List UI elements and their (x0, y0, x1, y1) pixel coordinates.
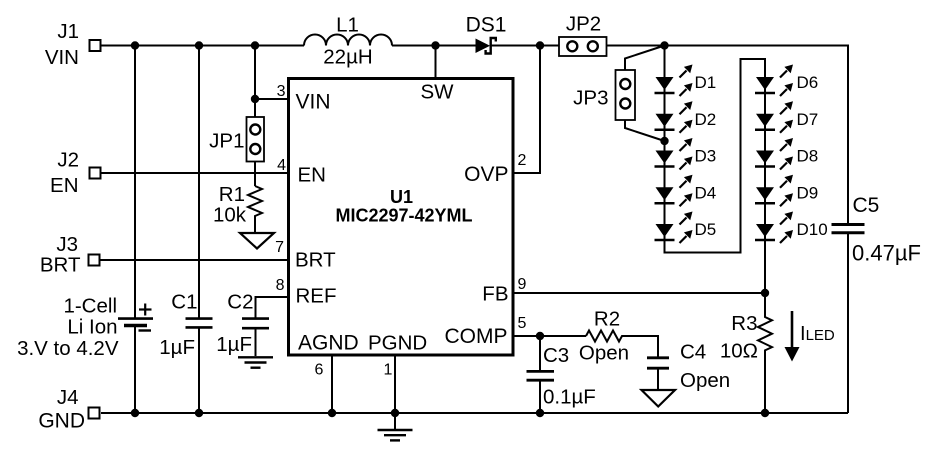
svg-text:D8: D8 (797, 147, 819, 166)
svg-text:D7: D7 (797, 110, 819, 129)
svg-text:22µH: 22µH (323, 46, 372, 69)
svg-text:0.1µF: 0.1µF (543, 386, 596, 409)
svg-text:AGND: AGND (298, 332, 359, 355)
svg-text:VIN: VIN (296, 91, 331, 114)
svg-text:U1: U1 (390, 187, 413, 207)
svg-text:R3: R3 (731, 312, 757, 335)
svg-text:REF: REF (296, 285, 337, 308)
svg-text:10k: 10k (213, 204, 247, 227)
svg-text:Li Ion: Li Ion (67, 316, 117, 339)
svg-text:C1: C1 (171, 291, 197, 314)
svg-text:4: 4 (277, 157, 286, 174)
svg-text:C5: C5 (853, 194, 880, 217)
svg-text:COMP: COMP (445, 325, 508, 348)
svg-text:J1: J1 (57, 20, 79, 43)
svg-text:C4: C4 (680, 341, 706, 364)
svg-text:FB: FB (482, 283, 508, 306)
svg-text:VIN: VIN (45, 46, 79, 69)
svg-text:1µF: 1µF (159, 336, 195, 359)
svg-text:Open: Open (579, 342, 629, 365)
svg-text:D6: D6 (797, 73, 819, 92)
svg-text:C3: C3 (543, 344, 569, 367)
svg-text:ILED: ILED (800, 323, 835, 345)
svg-text:OVP: OVP (464, 163, 508, 186)
svg-text:D9: D9 (797, 183, 819, 202)
svg-text:3: 3 (277, 83, 286, 100)
svg-text:D10: D10 (797, 220, 828, 239)
svg-text:JP1: JP1 (209, 130, 244, 153)
svg-text:2: 2 (518, 152, 527, 169)
svg-text:L1: L1 (336, 14, 359, 37)
svg-text:8: 8 (276, 277, 285, 294)
svg-text:GND: GND (38, 410, 85, 433)
svg-text:BRT: BRT (40, 254, 81, 277)
svg-text:1: 1 (384, 362, 393, 379)
svg-text:D4: D4 (695, 183, 717, 202)
svg-text:7: 7 (275, 239, 284, 256)
svg-text:C2: C2 (227, 291, 253, 314)
svg-text:BRT: BRT (295, 249, 336, 272)
svg-text:R2: R2 (594, 308, 620, 331)
svg-text:EN: EN (298, 164, 326, 187)
svg-text:D2: D2 (695, 110, 717, 129)
svg-text:J2: J2 (57, 149, 79, 172)
svg-text:JP3: JP3 (573, 87, 608, 110)
svg-text:JP2: JP2 (566, 13, 601, 36)
svg-text:J4: J4 (57, 386, 79, 409)
svg-text:SW: SW (420, 81, 454, 104)
svg-text:3.V to 4.2V: 3.V to 4.2V (17, 337, 119, 360)
svg-text:1µF: 1µF (216, 333, 252, 356)
svg-text:5: 5 (518, 315, 527, 332)
svg-text:D3: D3 (695, 147, 717, 166)
svg-text:MIC2297-42YML: MIC2297-42YML (335, 206, 472, 226)
svg-text:9: 9 (518, 276, 527, 293)
svg-text:Open: Open (680, 369, 730, 392)
svg-text:EN: EN (50, 174, 78, 197)
svg-text:6: 6 (315, 362, 324, 379)
svg-text:D5: D5 (695, 220, 717, 239)
svg-text:0.47µF: 0.47µF (852, 241, 921, 266)
svg-text:D1: D1 (695, 73, 717, 92)
svg-text:DS1: DS1 (466, 14, 507, 37)
svg-text:PGND: PGND (368, 332, 427, 355)
svg-text:1-Cell: 1-Cell (63, 295, 117, 318)
svg-text:10Ω: 10Ω (720, 340, 758, 363)
